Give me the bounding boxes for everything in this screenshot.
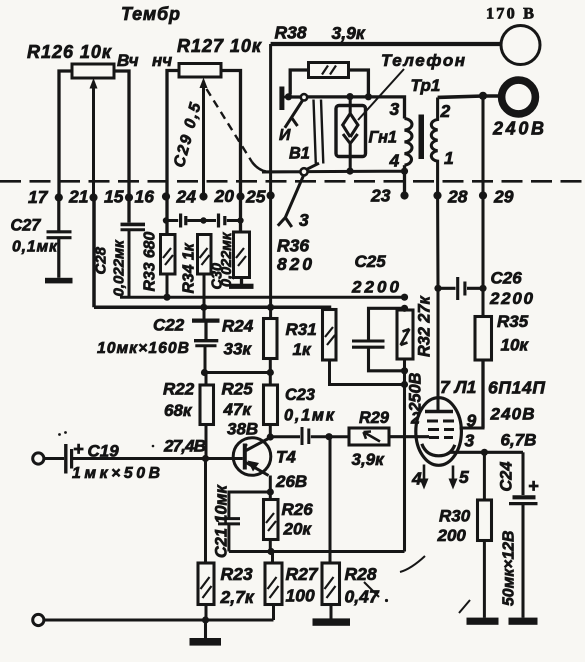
node R24 on bus B [267, 304, 274, 311]
svg-text:47к: 47к [223, 400, 253, 419]
svg-text:Вч: Вч [117, 51, 139, 70]
svg-text:2200: 2200 [489, 289, 534, 308]
heater pin 5 [452, 466, 455, 480]
svg-text:3: 3 [465, 431, 475, 451]
resistor R28 [322, 437, 380, 619]
mechanical link dashed from R127 wiper to switch В1 [207, 89, 253, 162]
core [419, 115, 425, 160]
svg-text:0,022мк: 0,022мк [219, 232, 235, 287]
node cathode [481, 449, 488, 456]
svg-text:15: 15 [104, 187, 124, 207]
transformer Тр1 [405, 76, 454, 196]
pin 23 [400, 191, 408, 199]
wire 240V rail [438, 96, 499, 97]
pin 25 [267, 191, 275, 199]
svg-text:+: + [528, 476, 539, 496]
cathode [422, 444, 455, 456]
resistor R35 [475, 312, 529, 428]
resistor R34 [181, 235, 212, 319]
screen grid pin 9 wire [460, 418, 484, 428]
svg-text:R30: R30 [439, 507, 471, 526]
node y171 Тр1 primary [401, 168, 408, 175]
svg-text:С22: С22 [153, 316, 185, 335]
svg-text:R24: R24 [222, 317, 254, 336]
resistor R23 [198, 459, 255, 621]
node 240V [479, 92, 487, 100]
svg-text:И: И [279, 127, 291, 144]
pin 24 [199, 192, 207, 200]
chassis dashed line [0, 180, 585, 183]
switch В1 pole И blade [285, 101, 303, 128]
svg-text:3: 3 [390, 99, 400, 119]
svg-text:68к: 68к [164, 401, 193, 420]
svg-text:1мк×50В: 1мк×50В [72, 465, 160, 482]
ground below R30 [467, 618, 499, 625]
node C26 right [479, 285, 486, 292]
svg-text:10к: 10к [501, 336, 530, 355]
svg-text:2: 2 [410, 410, 420, 428]
capacitor C28 [93, 224, 146, 297]
capacitor C23 [270, 386, 349, 445]
node R24 bottom [267, 369, 274, 376]
svg-text:С29 0,5: С29 0,5 [171, 101, 205, 169]
node bus A to R32 line [401, 294, 408, 301]
capacitor C19 [44, 431, 160, 482]
svg-text:25: 25 [245, 187, 266, 207]
resistor R24 [222, 317, 277, 373]
pin 29 [479, 191, 487, 199]
jack actuator lines [314, 100, 324, 164]
svg-text:3: 3 [299, 210, 309, 230]
wire R32 line down to cathode bottom row [403, 359, 406, 552]
wire lower pole row y171 [262, 170, 405, 174]
svg-text:В1: В1 [289, 145, 310, 163]
svg-text:6,7В: 6,7В [501, 431, 537, 450]
svg-text:С21 10мк: С21 10мк [213, 484, 231, 558]
pin 28 [433, 191, 441, 199]
resistor R31 [286, 310, 405, 385]
wire from 170V rail down through pin 25 to R24 [269, 44, 272, 319]
svg-text:R25: R25 [222, 380, 254, 399]
input terminal top [33, 453, 44, 464]
primary winding [405, 119, 412, 166]
node R33 on bus A [163, 294, 170, 301]
node base junction [202, 455, 209, 462]
capacitor C26 [438, 269, 534, 309]
svg-text:240В: 240В [490, 405, 535, 424]
node R38 right [365, 93, 372, 100]
wire link row y220 [166, 219, 241, 222]
svg-text:R22: R22 [163, 380, 195, 399]
pin 15 [125, 193, 133, 201]
switch В1 lower pole blade to actuator [307, 163, 319, 169]
svg-text:820: 820 [277, 254, 312, 274]
svg-text:50мк×12В: 50мк×12В [501, 531, 518, 606]
svg-text:R126 10к: R126 10к [27, 42, 112, 62]
node Гн1 top [346, 93, 353, 100]
secondary winding [431, 98, 437, 196]
svg-text:С24: С24 [498, 462, 516, 492]
svg-text:0,47: 0,47 [345, 587, 380, 607]
capacitor C27 [11, 198, 72, 278]
switch В1 pole И fixed contact [279, 87, 284, 111]
svg-text:28: 28 [447, 187, 468, 207]
resistor R27 [265, 552, 319, 621]
node R31 join [401, 381, 408, 388]
wire bottom junction row y551 [229, 550, 405, 553]
svg-text:R33 680: R33 680 [142, 232, 159, 292]
anode [425, 410, 453, 413]
svg-text:3,9к: 3,9к [332, 23, 366, 43]
svg-text:170 В: 170 В [486, 4, 534, 23]
heater pin 4 [423, 465, 426, 480]
svg-text:R31: R31 [286, 320, 317, 339]
ground below C24 [509, 618, 538, 625]
svg-text:29: 29 [493, 187, 514, 207]
transistor T4 [233, 438, 307, 500]
wire anode line pin28 down to tube [436, 196, 439, 412]
svg-text:0,1мк: 0,1мк [284, 407, 335, 425]
cathode pin 3 wire [450, 451, 523, 454]
svg-text:1: 1 [444, 148, 454, 168]
phone jack Гн1 [336, 97, 397, 171]
wire ground row [44, 618, 274, 621]
svg-text:R28: R28 [345, 564, 377, 584]
resistor R26 [264, 500, 314, 552]
node emitter [267, 488, 274, 495]
capacitor C30 [219, 214, 225, 228]
svg-text:21: 21 [68, 187, 88, 207]
resistor R29 [349, 409, 429, 469]
pin 17 [55, 193, 63, 201]
node collector [267, 433, 274, 440]
wire base row [72, 457, 243, 460]
svg-text:R36: R36 [277, 236, 309, 256]
svg-text:R23: R23 [221, 564, 253, 584]
svg-text:2: 2 [440, 101, 451, 121]
ground main [204, 620, 207, 638]
svg-text:16: 16 [135, 187, 155, 207]
bus B wire from pin 21 [94, 198, 330, 310]
switch В1 contact 3 blade [278, 176, 304, 228]
svg-text:20: 20 [214, 186, 235, 206]
svg-text:27,4В: 27,4В [163, 437, 206, 456]
svg-text:7 Л1: 7 Л1 [440, 377, 476, 397]
svg-text:нч: нч [152, 51, 172, 70]
input terminal bottom [33, 614, 44, 625]
resistor R25 [222, 380, 278, 438]
ground below R36 [229, 284, 254, 289]
svg-text:2200: 2200 [351, 278, 400, 297]
svg-text:0,1мк: 0,1мк [12, 239, 58, 256]
svg-text:17: 17 [28, 187, 49, 207]
node C26 left anode line [434, 285, 441, 292]
resistor R22 [163, 380, 214, 459]
wire 170V rail [271, 42, 502, 46]
node R38 left [285, 93, 292, 100]
node R32 bottom [401, 367, 408, 374]
ground below C27 [45, 278, 73, 284]
capacitor C25 [351, 252, 405, 371]
resistor R30 [437, 452, 492, 617]
pin 21 [89, 193, 97, 201]
potentiometer R127 [167, 36, 262, 235]
svg-text:200: 200 [437, 526, 467, 545]
svg-text:R35: R35 [497, 312, 529, 331]
svg-text:R26: R26 [282, 500, 314, 519]
potentiometer R126 [27, 42, 129, 223]
capacitor C22 [97, 316, 220, 373]
svg-text:100: 100 [286, 586, 315, 606]
wire node row y97 [292, 97, 405, 119]
scan specks [400, 556, 425, 572]
svg-text:4: 4 [389, 151, 400, 171]
svg-text:10мк×160В: 10мк×160В [97, 340, 189, 357]
pin 16 [162, 192, 170, 200]
svg-text:Тембр: Тембр [121, 4, 180, 24]
tube Л1 6П14П [410, 377, 545, 490]
node R32 top [401, 305, 408, 312]
ground below R28 [313, 618, 351, 625]
svg-text:1к: 1к [293, 340, 312, 359]
switch В1 pole И pivot [301, 94, 307, 100]
pin 20 [236, 192, 244, 200]
svg-text:С25: С25 [355, 252, 387, 271]
resistor R32 [397, 295, 434, 359]
svg-text:240В: 240В [492, 119, 544, 139]
node y171 Гн1 bottom [346, 168, 353, 175]
svg-text:С27: С27 [11, 217, 42, 235]
terminal 240В [502, 80, 536, 114]
node C22 on bus B [200, 304, 207, 311]
svg-text:0,022мк: 0,022мк [111, 239, 128, 297]
svg-text:R32 27к: R32 27к [416, 295, 434, 357]
resistor R33 [142, 232, 176, 298]
terminal 170 В [501, 26, 540, 65]
resistor R38 [275, 23, 369, 96]
svg-text:2,7к: 2,7к [220, 587, 255, 607]
grids [427, 421, 454, 438]
capacitor C24 [498, 452, 540, 617]
svg-text:4: 4 [411, 469, 422, 489]
svg-text:С26: С26 [491, 269, 523, 288]
svg-text:24: 24 [176, 187, 197, 207]
wire pin29 line down [481, 96, 484, 317]
svg-text:23: 23 [370, 186, 391, 206]
svg-text:R127 10к: R127 10к [177, 36, 262, 56]
capacitor C29 [181, 214, 186, 228]
resistor R36 [234, 232, 313, 284]
svg-text:5: 5 [459, 467, 469, 487]
svg-text:R38: R38 [275, 23, 307, 43]
svg-text:9: 9 [467, 411, 477, 431]
svg-text:Тр1: Тр1 [411, 76, 441, 95]
svg-text:20к: 20к [283, 520, 313, 539]
svg-text:Т4: Т4 [276, 448, 296, 467]
wire junction row y372 [205, 373, 271, 386]
svg-text:Телефон: Телефон [381, 51, 465, 70]
svg-text:Гн1: Гн1 [369, 129, 397, 147]
svg-text:R29: R29 [359, 409, 389, 427]
node C23 right [325, 433, 332, 440]
node ground row [202, 616, 209, 623]
capacitor C21 [213, 484, 271, 558]
bus A wire [120, 296, 405, 299]
svg-text:38В: 38В [227, 420, 258, 439]
svg-text:6П14П: 6П14П [488, 378, 545, 398]
node C22 bottom [201, 369, 208, 376]
svg-text:+: + [73, 439, 84, 459]
svg-text:3,9к: 3,9к [352, 450, 386, 469]
node R26 R27 junction [267, 548, 274, 555]
switch В1 lower pole pivot [300, 168, 307, 175]
svg-text:26В: 26В [275, 472, 307, 491]
svg-text:С23: С23 [285, 386, 315, 404]
node y220 row [163, 217, 169, 223]
svg-text:R34 1к: R34 1к [181, 242, 198, 293]
svg-text:R27: R27 [286, 564, 319, 584]
svg-text:33к: 33к [224, 340, 253, 359]
